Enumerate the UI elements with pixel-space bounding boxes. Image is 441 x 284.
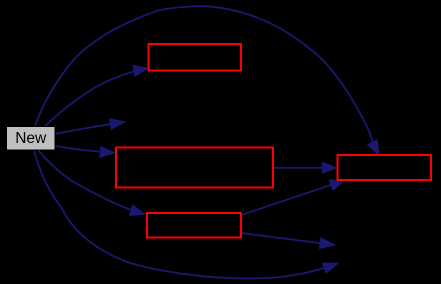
svg-text:New: New: [15, 130, 47, 147]
